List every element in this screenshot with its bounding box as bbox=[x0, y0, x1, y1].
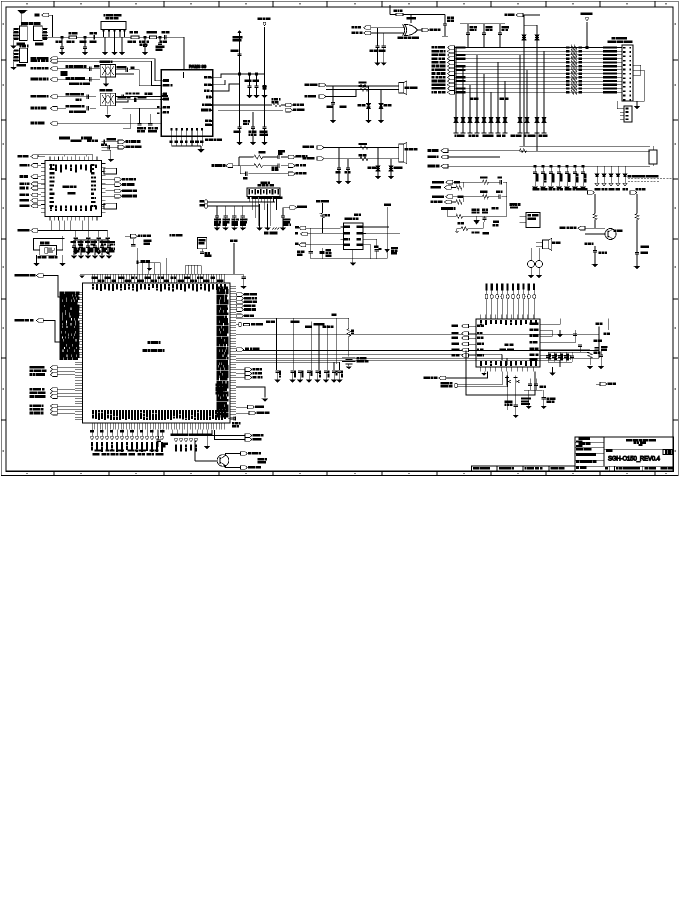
U301 long wire 4 bbox=[236, 353, 502, 355]
diode row labels bbox=[595, 189, 628, 190]
crystal wires bbox=[34, 236, 65, 250]
bus label pads left bbox=[456, 46, 466, 93]
IO bus lines bbox=[455, 48, 623, 93]
flag PLS1 bbox=[288, 155, 307, 159]
cap under 26M bbox=[131, 239, 151, 246]
U301 bottom right wires bbox=[172, 430, 210, 452]
title block title text SCH-0150_REV0.4 bbox=[608, 456, 661, 462]
power row2 resistor bbox=[480, 191, 498, 198]
resistor R1011 bbox=[254, 152, 278, 159]
cap right col bbox=[260, 127, 268, 145]
wire RX1a bbox=[57, 59, 161, 81]
U301 long wire 3 bbox=[236, 348, 599, 352]
vib driver 2 bbox=[633, 246, 648, 269]
flag VRTC2 bbox=[630, 189, 645, 214]
vertical drop 3 bbox=[310, 318, 312, 370]
title block company name text bbox=[627, 440, 656, 446]
net label TOUT2 bbox=[291, 321, 299, 323]
junction dots RF line bbox=[61, 36, 161, 38]
flag TX1 bbox=[31, 67, 57, 71]
flag PA_ON bbox=[31, 105, 96, 112]
cap mid col plates bbox=[234, 127, 243, 145]
U101 bottom caps bbox=[73, 231, 115, 255]
U101 top-left flag bbox=[18, 155, 45, 159]
res vertical right bbox=[649, 146, 657, 166]
flag PLS2 bbox=[288, 164, 305, 168]
U301 bottom labels row2 bbox=[93, 450, 163, 455]
balun T101 outputs bbox=[116, 67, 140, 75]
cap C121 bbox=[231, 50, 242, 57]
keypad IC U401 body bbox=[476, 319, 540, 367]
junction dots right rails bbox=[534, 47, 588, 168]
U301 bottom pins bbox=[92, 423, 225, 430]
wire PAM VCC2 bbox=[213, 80, 225, 85]
ground at J103 bbox=[10, 61, 16, 70]
RF switch U102 bbox=[101, 14, 126, 37]
VCTCXO caps bbox=[137, 108, 157, 131]
U101 part label bbox=[63, 186, 76, 194]
resistor R105 bbox=[272, 99, 281, 107]
caps row below wires bbox=[274, 371, 342, 383]
flag PAM_OUT1 bbox=[281, 103, 303, 107]
U301 top pins bbox=[92, 274, 225, 283]
U101 bottom pins bbox=[50, 206, 97, 221]
ground under switch 1 bbox=[102, 37, 108, 55]
vertical drop 5 bbox=[327, 325, 329, 370]
power right rail bbox=[506, 182, 508, 216]
diode D202 bbox=[524, 25, 539, 151]
resistor R250 bbox=[593, 214, 597, 229]
U101 gnd top right bbox=[101, 150, 114, 162]
resistor R1012 bbox=[239, 164, 278, 171]
power row2 flagB bbox=[431, 200, 456, 204]
PAM bottom pin wires bbox=[170, 136, 203, 146]
double flag MIC bbox=[212, 430, 263, 441]
wire SIM low bbox=[240, 172, 288, 179]
bus gnd labels bbox=[470, 98, 508, 99]
connector J102 bbox=[34, 26, 49, 40]
SAW filter U1001 label bbox=[258, 182, 273, 186]
U401 loop wire bbox=[466, 372, 535, 396]
U101 right flags bbox=[105, 178, 136, 198]
U301 long wire 6 bbox=[236, 359, 560, 361]
cap C103 series bbox=[90, 32, 96, 39]
ground under switch 3 bbox=[119, 37, 125, 55]
U302 audio right pins bbox=[357, 226, 366, 245]
balun T102 outputs bbox=[116, 93, 162, 102]
diode row right bbox=[595, 166, 628, 186]
cap C104 shunt bbox=[140, 37, 149, 55]
wire TX3 bbox=[57, 96, 96, 98]
audio junction wire bbox=[309, 228, 311, 252]
RF line part labels bbox=[67, 31, 167, 42]
net label PLS top bbox=[317, 200, 329, 213]
bus resistor arrays bbox=[566, 46, 582, 95]
cap C102 shunt bbox=[80, 37, 88, 55]
rail connect 2 bbox=[501, 354, 503, 371]
vertical drop 1 bbox=[276, 318, 278, 370]
transistor Q301 bbox=[195, 440, 267, 469]
connector J202 bbox=[617, 101, 632, 122]
svg-text:SGH-O150_REV0.4: SGH-O150_REV0.4 bbox=[608, 456, 661, 462]
U301 long wire 1 bbox=[236, 317, 349, 319]
mic cap bbox=[336, 148, 351, 185]
vertical drop 2 bbox=[292, 318, 294, 370]
U401 left flags bbox=[452, 324, 484, 357]
PVCC labels bbox=[472, 208, 498, 214]
U301 left flag group 3 bbox=[30, 404, 75, 415]
flag PLED bbox=[560, 226, 605, 230]
flag PAM_OUT2 bbox=[218, 108, 304, 112]
balun T102 bbox=[100, 90, 116, 106]
border frame outer bbox=[1, 1, 678, 475]
audio IC U302 body bbox=[344, 214, 363, 249]
xor caps bbox=[370, 28, 387, 66]
pads GND label bbox=[137, 248, 150, 264]
U101 right pins bbox=[92, 164, 106, 213]
U301 bottom inner labels bbox=[92, 411, 225, 420]
xor input flags bbox=[352, 26, 404, 35]
U301 left lower pins bbox=[75, 362, 83, 420]
rail zig bbox=[520, 149, 527, 153]
U301 bottom down flags bbox=[91, 430, 165, 452]
xor vbat cap bbox=[442, 15, 454, 37]
battery BT1 bbox=[342, 357, 368, 369]
ground at J101 bbox=[10, 39, 16, 49]
U401 oval flag bbox=[441, 372, 508, 388]
ground under balun T102 bbox=[104, 106, 111, 118]
U401 vib cap bbox=[540, 386, 555, 409]
power row1 resistor bbox=[480, 177, 500, 184]
flag SIM_CLK bbox=[212, 164, 239, 168]
U101 right wire1 bbox=[101, 139, 118, 144]
rail y146 bbox=[520, 145, 651, 147]
U401 flag NC bbox=[424, 372, 488, 380]
U101 top net stubs bbox=[59, 137, 97, 156]
VBAT wire bus bbox=[581, 13, 592, 48]
diode D101 bbox=[261, 74, 267, 98]
VBAT label right bbox=[385, 204, 391, 258]
U101 right wire2 bbox=[101, 144, 118, 150]
vertical drop 4 bbox=[318, 325, 320, 370]
rail connect 3 bbox=[506, 358, 508, 365]
title block grid bbox=[575, 437, 674, 471]
U301 part label bbox=[143, 342, 164, 352]
xor gate U201 bbox=[398, 18, 419, 39]
rail y151 bbox=[520, 150, 651, 152]
cap C330 bbox=[228, 416, 240, 427]
SAW filter U1001 bbox=[247, 188, 282, 199]
U101 right box2 bbox=[101, 203, 116, 209]
net labels right mid bbox=[306, 324, 333, 328]
labels mid balun bbox=[145, 93, 152, 95]
PVCC bottom resistor bbox=[455, 222, 483, 232]
wires to PAM left bbox=[115, 71, 155, 102]
mic zeners bbox=[368, 148, 402, 180]
cap FLB right bbox=[590, 346, 607, 350]
battery net label bbox=[332, 314, 336, 315]
balun T101 bbox=[100, 61, 116, 77]
SIM right cap bbox=[280, 208, 291, 231]
wire to PAM feed 3 bbox=[123, 114, 131, 128]
right margin row dividers bbox=[673, 23, 678, 451]
earpiece wire2 bbox=[326, 90, 356, 97]
earpiece connector bbox=[326, 81, 417, 95]
U401 bottom gnd bbox=[481, 372, 487, 376]
PAM TP-GND label bbox=[206, 139, 222, 141]
PVCC wire bbox=[447, 210, 507, 219]
speaker SPK201 bbox=[536, 238, 560, 250]
U401 right gnd bbox=[549, 367, 555, 376]
connector J101 bbox=[13, 26, 27, 40]
U101 top pins bbox=[50, 156, 97, 172]
label under J102 bbox=[35, 43, 43, 45]
antenna ANT1 bbox=[19, 11, 26, 26]
rail caps labels bbox=[533, 189, 587, 190]
crystal X101 label bbox=[41, 242, 50, 244]
U401 right circuit wires bbox=[545, 318, 590, 360]
ground PAM bottom bbox=[197, 146, 205, 153]
audio left flags bbox=[295, 226, 340, 246]
J201 right wires bbox=[633, 65, 644, 101]
U301 left flag group 2 bbox=[30, 388, 75, 399]
earpiece caps bbox=[327, 86, 346, 123]
bus TVS diode group bbox=[454, 48, 508, 134]
U301 long wire 5 bbox=[236, 357, 599, 359]
border frame inner bbox=[6, 7, 673, 472]
crystal X101 bbox=[40, 246, 57, 256]
crystal label below bbox=[38, 257, 57, 258]
resistor R101 series bbox=[69, 32, 77, 38]
audio right components bbox=[375, 246, 398, 259]
U101 bottom rail bbox=[32, 221, 108, 231]
flag 26M_TXVCO bbox=[118, 145, 141, 149]
caps row above QFP bbox=[71, 240, 115, 259]
U401 bottom pins bbox=[480, 362, 537, 372]
cap top right QFP bbox=[237, 274, 247, 289]
earpiece zeners bbox=[358, 86, 391, 123]
rail caps bbox=[532, 166, 586, 189]
flag SIM_DETECT bbox=[15, 319, 78, 342]
U401 top pin stubs bbox=[480, 315, 537, 325]
flag TX2 bbox=[31, 78, 57, 82]
U301 top rail bbox=[79, 274, 215, 278]
U301 flag TPO bbox=[237, 314, 254, 318]
cap C1012 series bbox=[278, 164, 288, 168]
top margin column dividers bbox=[26, 1, 666, 7]
wire down arrow bbox=[236, 387, 269, 402]
U401 part label bbox=[500, 344, 514, 351]
label TRA battery bbox=[70, 83, 90, 85]
PVCC cap bbox=[482, 216, 486, 222]
flag PLS3 bbox=[288, 172, 306, 176]
U301 top inner labels bbox=[92, 285, 225, 292]
net labels key matrix bbox=[0, 0, 1, 1]
flag TX3 bbox=[31, 95, 57, 99]
power row1 flagA bbox=[433, 180, 454, 184]
flag NTC bbox=[236, 411, 269, 415]
mic flags bbox=[303, 146, 324, 161]
PVCC bottom labels bbox=[458, 223, 489, 234]
wire 3VDIG bbox=[231, 240, 238, 274]
power right pads bbox=[493, 203, 518, 226]
label PVCC_3.8V bbox=[441, 208, 455, 210]
U301 rail risers right bbox=[186, 265, 202, 274]
power row2 pad bbox=[458, 195, 483, 198]
box small U310 bbox=[198, 238, 211, 257]
antenna net label bbox=[22, 23, 41, 25]
audio bottom cap bbox=[297, 248, 331, 259]
baseband QFP U301 body bbox=[83, 283, 231, 423]
label under J101 bbox=[17, 43, 25, 45]
wire PAM VCC1 bbox=[213, 74, 240, 78]
wire top xor bbox=[390, 5, 396, 15]
power row1 cap bbox=[498, 177, 507, 185]
U401 top ovals bbox=[485, 284, 535, 319]
U401 right pins bbox=[530, 323, 545, 360]
cap C105 shunt bbox=[156, 37, 164, 50]
connector J103 bbox=[13, 45, 28, 62]
U301 left pins bbox=[78, 292, 83, 358]
cap C1011 series bbox=[278, 151, 288, 160]
label PCS_TX bbox=[66, 65, 86, 67]
wire 3VDIG to rail bbox=[215, 243, 237, 274]
box U251 bbox=[510, 204, 540, 228]
wire to PAM feed 1 bbox=[117, 97, 161, 103]
label PCS_TX2 bbox=[66, 77, 91, 81]
flag 26M_RXVCO bbox=[118, 140, 140, 144]
PAM output wire bbox=[213, 104, 272, 106]
SIM junction bbox=[239, 157, 254, 174]
power row1 flagB bbox=[431, 186, 456, 190]
VBAT flag top center bbox=[258, 18, 270, 127]
svg-text:PAM8 80: PAM8 80 bbox=[189, 64, 207, 69]
U301 bottom mid labels bbox=[171, 434, 212, 436]
U301 long wire 7 bbox=[236, 361, 331, 363]
PAM supply rail bbox=[239, 57, 241, 127]
vib driver 1 bbox=[585, 243, 607, 267]
labels col below QFP right bbox=[216, 384, 224, 394]
rail y166 bbox=[428, 164, 650, 168]
resistor R201 bbox=[394, 10, 403, 16]
label PWM_RAMP bbox=[170, 235, 182, 237]
battery divider bbox=[336, 318, 354, 364]
wire xor vcc bbox=[403, 15, 445, 24]
bottom margin column dividers bbox=[26, 471, 666, 475]
PAM cap mid below bbox=[249, 112, 256, 145]
PAM caps below right bbox=[244, 121, 250, 125]
rail connect 1 bbox=[465, 351, 467, 388]
U401 right flag bbox=[596, 382, 616, 386]
vertical drop 6 bbox=[333, 362, 335, 370]
pad C marks bbox=[157, 95, 168, 114]
caps cluster right of PAM bbox=[240, 74, 265, 98]
power row2 zig2 bbox=[456, 197, 463, 204]
RF main trace bbox=[42, 36, 170, 38]
wire RF to PAM pin bbox=[166, 37, 184, 70]
flag PWR_LVL bbox=[31, 122, 161, 126]
U301 left flag group 1 bbox=[30, 366, 75, 377]
RF transceiver U101 body bbox=[45, 160, 101, 216]
title block bottom row cells bbox=[606, 466, 673, 471]
crystal grounds bbox=[33, 255, 66, 266]
U301 right flag stack bbox=[236, 293, 257, 312]
mic connector bbox=[324, 143, 417, 164]
flags triple right of QFP bbox=[236, 368, 262, 380]
vertical drop 7 bbox=[331, 362, 340, 370]
flag 26M_CLK area bbox=[125, 234, 150, 238]
U101 bottom flag bbox=[18, 229, 38, 233]
net label TOUT1 bbox=[266, 321, 274, 323]
transistor Q201 bbox=[585, 229, 622, 240]
inductor L-01 label bbox=[61, 72, 67, 76]
xor output flag bbox=[418, 28, 441, 32]
title block Title label bbox=[606, 450, 611, 452]
flag RX1 pair bbox=[31, 57, 57, 63]
title block size box bbox=[663, 450, 672, 455]
U301 resistor to NC bbox=[236, 322, 263, 326]
IO connector J201 bbox=[622, 45, 633, 101]
SIM caps row bbox=[214, 206, 247, 231]
earpiece flags bbox=[305, 83, 326, 98]
U301 right inner labels bbox=[217, 287, 228, 417]
PAM right pin labels bbox=[201, 77, 212, 126]
inductor L101 bbox=[130, 31, 139, 38]
U101 left flags bbox=[20, 164, 41, 208]
power row2 flagA bbox=[433, 195, 458, 199]
U101 bottom cap labels bbox=[0, 0, 1, 1]
wire TX1 bbox=[57, 68, 100, 70]
wire PAM VCC3 bbox=[213, 84, 240, 91]
IO bus flags bbox=[432, 46, 455, 94]
wire to PAM feed 2 bbox=[123, 107, 161, 109]
flag VRTC1 bbox=[578, 189, 595, 214]
SAW pins down bbox=[249, 197, 276, 226]
flag ANT bbox=[35, 13, 52, 37]
U101 left pins bbox=[41, 164, 54, 213]
flag SIM_IO bbox=[283, 206, 307, 210]
inductor L102 bbox=[149, 31, 157, 38]
SAW right gnds bbox=[256, 204, 279, 234]
cap C106 series bbox=[162, 31, 169, 39]
audio right wires bbox=[363, 227, 400, 259]
VBAT arrow PAM bbox=[233, 30, 242, 70]
PVCC diode bbox=[474, 216, 478, 223]
label under J103 bbox=[17, 64, 25, 66]
power row2 cap bbox=[497, 191, 507, 199]
junction dots PAM rail bbox=[239, 73, 258, 75]
J201 label bbox=[608, 38, 632, 43]
U301 right pins bbox=[230, 286, 236, 420]
cap C101 shunt bbox=[56, 37, 65, 55]
ground J202 bbox=[633, 101, 640, 109]
cap C113 bbox=[76, 94, 88, 100]
U301 long wire 2 bbox=[236, 323, 602, 358]
U101 right box1 bbox=[101, 168, 116, 174]
U301 top pin labels bbox=[92, 277, 223, 281]
U401 right components bbox=[546, 340, 602, 369]
bus top caps bbox=[460, 24, 509, 48]
U101 top wire rail bbox=[38, 155, 93, 157]
diode D201 bbox=[522, 15, 526, 146]
U301 rail risers from PAM bbox=[137, 258, 166, 274]
bus TVS diode group 2 bbox=[455, 51, 547, 136]
flag top far right bbox=[505, 13, 540, 17]
flag PWM bbox=[236, 405, 264, 409]
revision strip bbox=[472, 466, 575, 471]
U302 audio left pins bbox=[341, 226, 350, 245]
PAM bottom pins bbox=[171, 128, 204, 136]
